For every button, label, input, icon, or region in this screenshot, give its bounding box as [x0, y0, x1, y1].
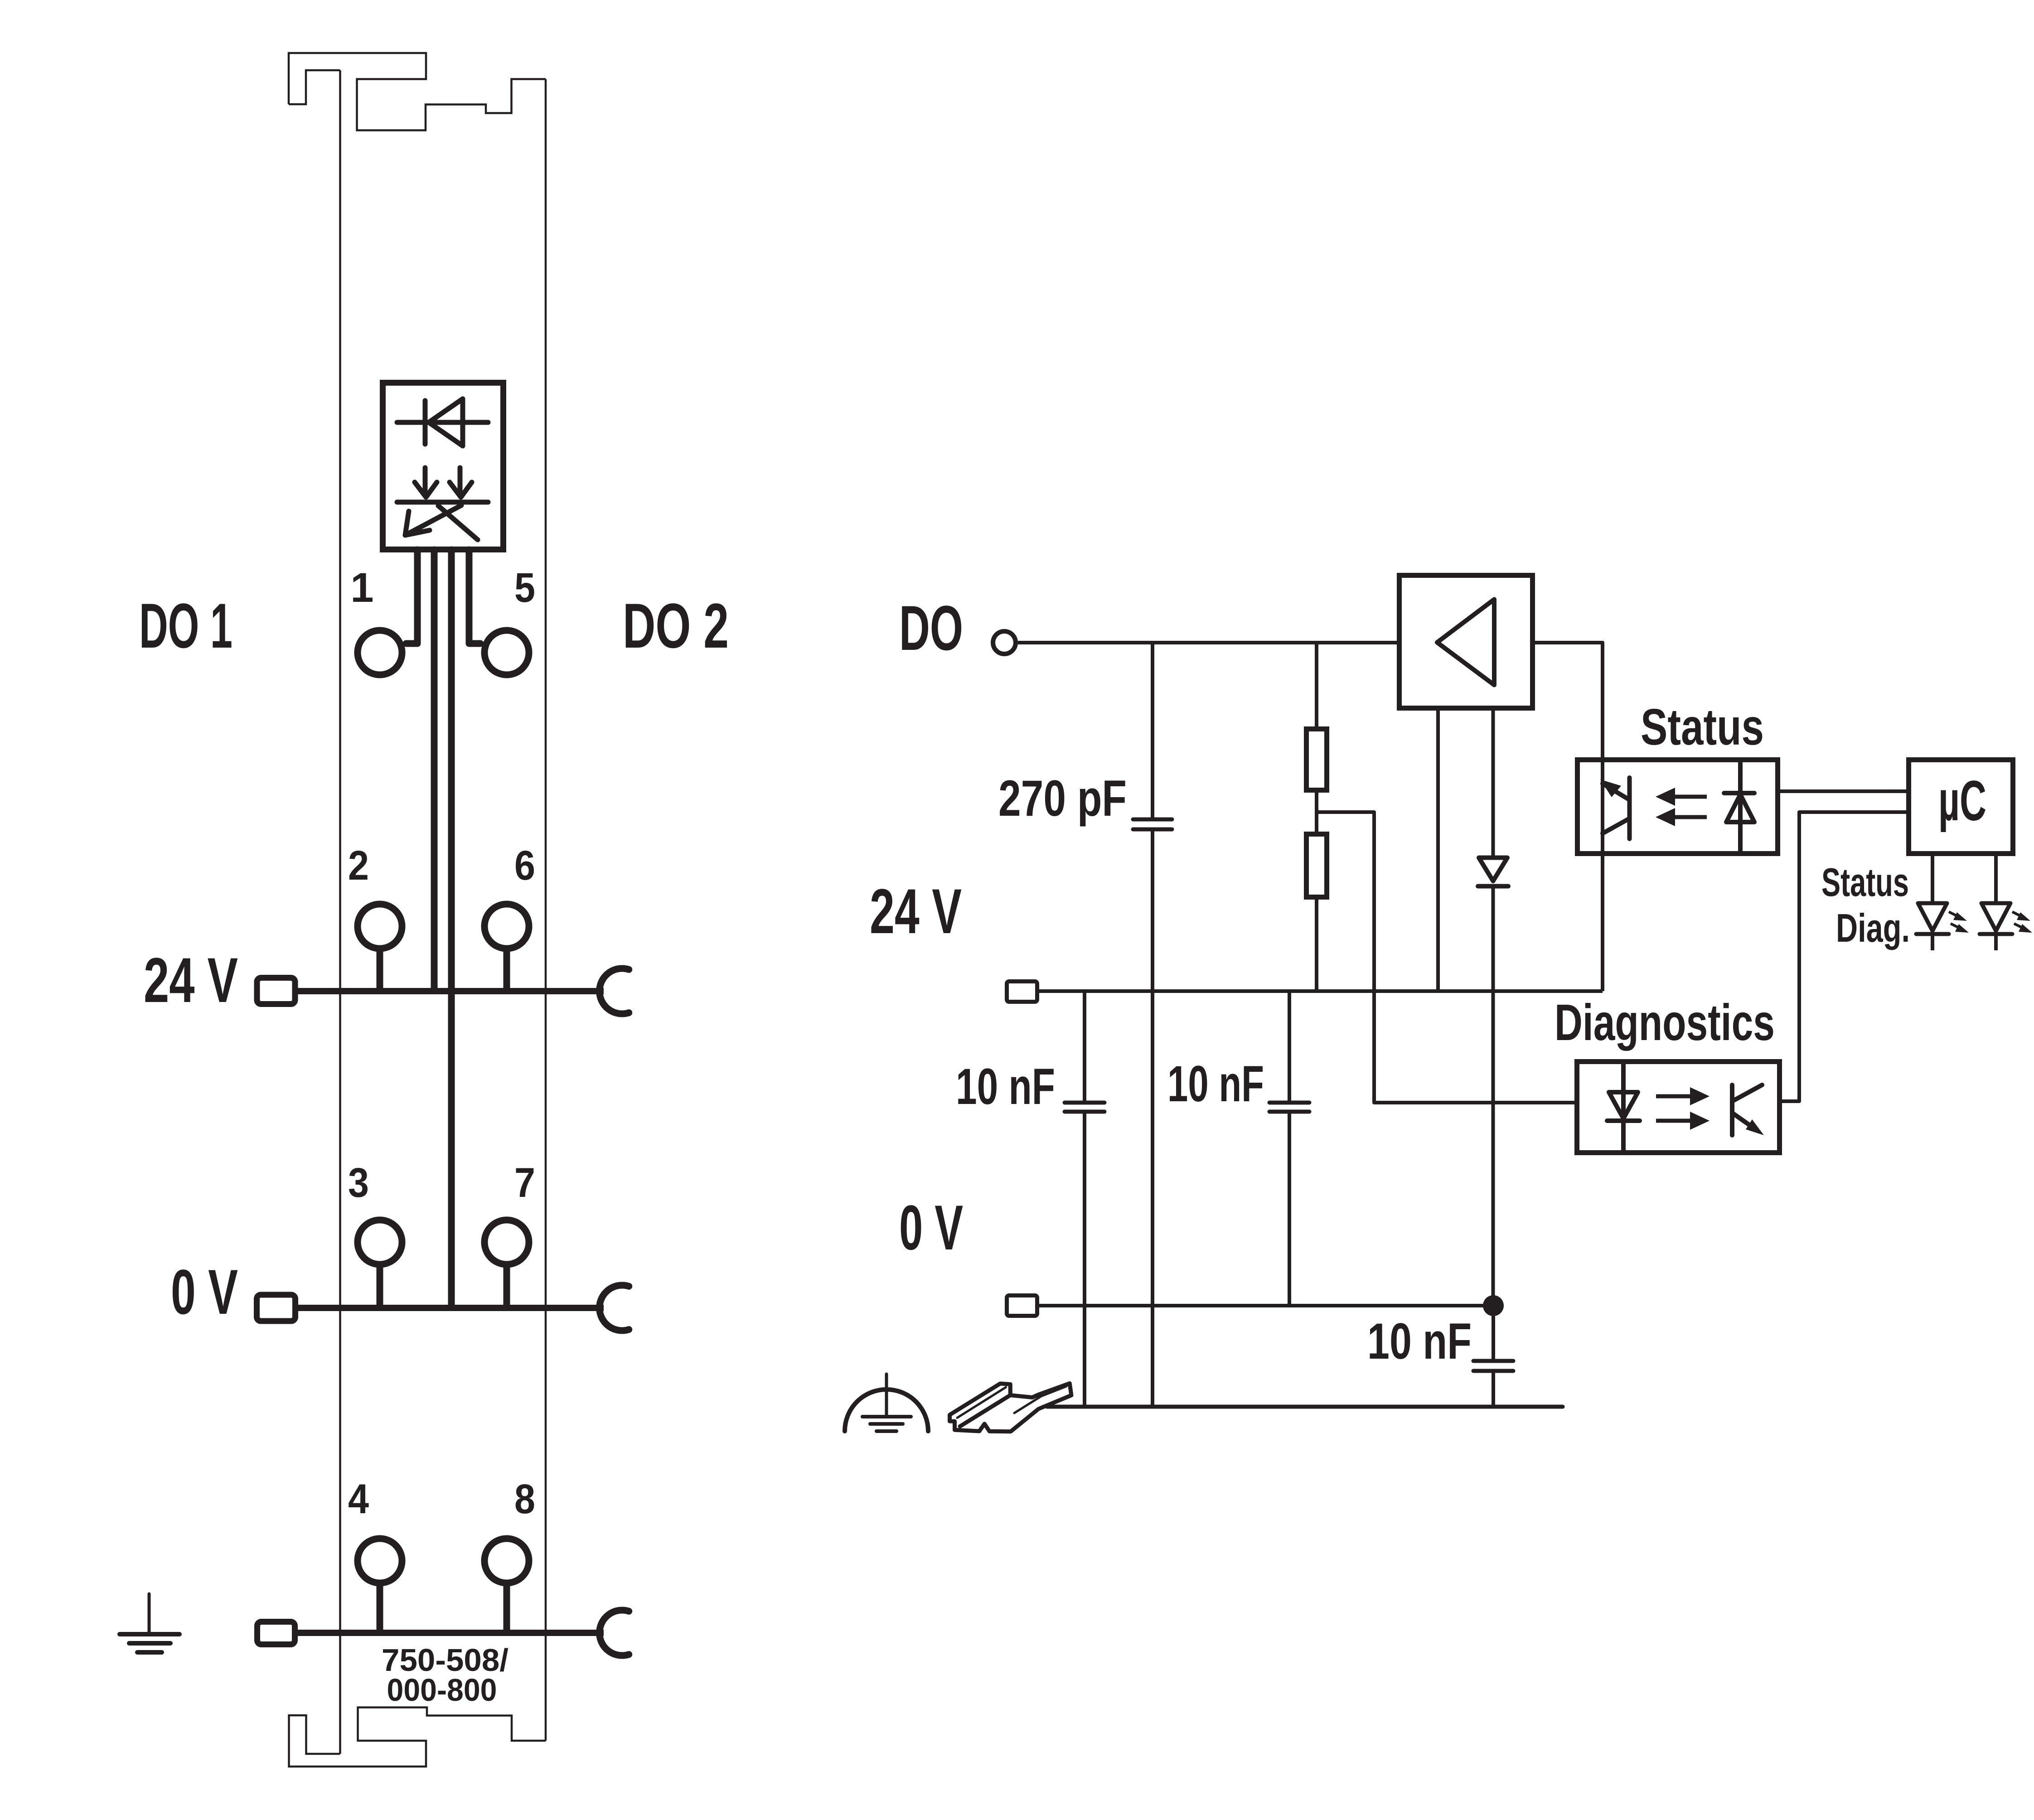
clamp circle 6: [484, 904, 529, 949]
svg-text:2: 2: [348, 842, 369, 889]
0V rail left: [298, 1305, 604, 1311]
svg-text:5: 5: [514, 565, 535, 611]
status light arrows: [1656, 788, 1707, 826]
0V power jumper contact arc left: [600, 1285, 629, 1331]
status LED: [1916, 903, 1949, 934]
amp pin to 24V rail: [1436, 711, 1440, 991]
diagnostics optocoupler box: [1577, 1062, 1780, 1153]
wire clamp 3 to 0V rail: [377, 1264, 383, 1306]
amp pin to diode: [1492, 711, 1495, 857]
wire status box to uC: [1780, 789, 1906, 793]
svg-text:8: 8: [514, 1476, 535, 1522]
diagnostics LED: [1607, 1059, 1640, 1155]
junction dot 0V: [1483, 1295, 1504, 1316]
wire status box to 24V rail: [1601, 856, 1604, 991]
clamp circle 4: [358, 1539, 402, 1583]
module earth symbol: [120, 1594, 179, 1652]
module outline top: [289, 53, 546, 131]
earth power jumper contact arc left: [600, 1610, 629, 1655]
clamp circle 5: [484, 630, 529, 675]
capacitor 10nF 2: [1269, 1103, 1309, 1112]
24V rail left: [298, 988, 604, 994]
svg-text:0 V: 0 V: [899, 1192, 963, 1263]
diagnostics phototransistor arrow: [1746, 1119, 1764, 1135]
svg-text:Diag.: Diag.: [1836, 905, 1910, 950]
module outline bottom: [289, 1708, 546, 1767]
diode symbol in output element: [397, 399, 488, 446]
svg-text:6: 6: [514, 842, 535, 889]
svg-text:10 nF: 10 nF: [1367, 1313, 1472, 1370]
module outline right side wire: [545, 79, 547, 1741]
wire output element pin to clamp 1: [406, 550, 417, 644]
svg-text:DO 1: DO 1: [139, 590, 232, 661]
svg-text:DO: DO: [899, 592, 963, 663]
DO wire: [1018, 641, 1397, 644]
diag LED wire: [1994, 856, 1998, 950]
circuit earth symbol: [845, 1374, 928, 1431]
DIN rail icon: [950, 1384, 1071, 1432]
module outline left side wire: [339, 70, 341, 1754]
diag LED: [1980, 903, 2012, 934]
triac symbol in output element: [397, 468, 488, 540]
wire diode to 0V junction: [1492, 886, 1495, 1306]
svg-text:3: 3: [348, 1160, 369, 1206]
svg-text:0 V: 0 V: [171, 1256, 238, 1327]
status LED wire: [1931, 856, 1934, 950]
svg-text:Status: Status: [1821, 860, 1909, 905]
uC box: [1909, 760, 2013, 854]
0V terminal left: [257, 1295, 295, 1321]
wire 10nF cap 1 to earth rail: [1083, 1113, 1086, 1407]
clamp circle 1: [358, 630, 402, 675]
wire clamp 4 to earth rail: [377, 1583, 383, 1631]
24V rail right: [1039, 989, 1603, 993]
wire R1/R2 junction to diagnostics input: [1317, 812, 1574, 1103]
wire DO to 270pF: [1151, 643, 1154, 818]
wire clamp 6 to 24V rail: [504, 949, 510, 989]
wire clamp 8 to earth rail: [504, 1583, 510, 1631]
diagnostics light arrows: [1656, 1087, 1710, 1130]
svg-text:000-800: 000-800: [387, 1672, 497, 1708]
capacitor 10nF 3: [1473, 1361, 1513, 1371]
earth rail left: [298, 1630, 604, 1636]
0V rail right: [1039, 1304, 1493, 1307]
diag LED emission arrows: [2012, 912, 2032, 933]
wire DO to R1: [1315, 643, 1318, 726]
wire 24V rail to 10nF cap 2: [1288, 991, 1291, 1101]
status phototransistor arrow: [1600, 779, 1621, 797]
amplifier box: [1400, 576, 1533, 708]
svg-text:24 V: 24 V: [144, 944, 238, 1016]
status phototransistor: [1603, 778, 1630, 839]
clamp circle 2: [358, 904, 402, 949]
amplifier triangle: [1437, 600, 1494, 685]
24V terminal right: [1007, 982, 1037, 1002]
output element box: [383, 383, 504, 550]
capacitor 10nF 1: [1065, 1103, 1104, 1112]
svg-text:7: 7: [514, 1160, 535, 1206]
amp output wire to status box: [1535, 643, 1603, 757]
wire R1 to R2: [1315, 793, 1318, 832]
diagnostics phototransistor: [1732, 1085, 1762, 1135]
wire junction to 10nF cap 3 and earth rail: [1492, 1306, 1495, 1407]
wire 10nF cap 2 to 0V rail: [1288, 1113, 1291, 1306]
clamp circle 7: [484, 1220, 529, 1264]
wire 270pF to earth rail: [1151, 831, 1154, 1407]
wire clamp 7 to 0V rail: [504, 1264, 510, 1306]
wire output element to 0V rail: [448, 550, 455, 1305]
svg-text:Status: Status: [1641, 698, 1764, 755]
clamp circle 3: [358, 1220, 402, 1264]
wire diagnostics box to uC: [1782, 812, 1906, 1101]
svg-text:270 pF: 270 pF: [998, 770, 1127, 827]
wire 24V rail to 10nF cap 1: [1083, 991, 1086, 1101]
status box interior pin vertical: [1601, 757, 1604, 856]
24V terminal left: [257, 978, 295, 1004]
svg-text:DO 2: DO 2: [623, 590, 729, 661]
status LED emission arrows: [1949, 912, 1969, 933]
wire output element to 24V rail: [431, 550, 438, 988]
diode D2: [1478, 858, 1508, 886]
capacitor 270pF: [1133, 819, 1172, 829]
clamp circle 8: [484, 1539, 529, 1583]
svg-text:24 V: 24 V: [870, 876, 962, 947]
svg-text:10 nF: 10 nF: [1167, 1055, 1264, 1112]
DO terminal circle: [993, 631, 1016, 654]
resistor R1: [1307, 729, 1327, 790]
wire clamp 2 to 24V rail: [377, 949, 383, 989]
wire output element pin to clamp 5: [469, 550, 480, 644]
svg-text:1: 1: [350, 565, 373, 611]
svg-text:µC: µC: [1938, 770, 1986, 833]
svg-text:Diagnostics: Diagnostics: [1555, 994, 1775, 1051]
svg-text:10 nF: 10 nF: [956, 1058, 1055, 1115]
0V terminal right: [1007, 1296, 1037, 1316]
24V power jumper contact arc left: [600, 968, 629, 1014]
status optocoupler box: [1578, 760, 1778, 854]
earth terminal left: [257, 1622, 295, 1645]
wire R2 to 24V rail: [1315, 900, 1318, 991]
status opto diode: [1724, 757, 1754, 856]
svg-text:4: 4: [348, 1476, 369, 1522]
resistor R2: [1307, 834, 1327, 897]
earth rail right: [1047, 1405, 1563, 1409]
